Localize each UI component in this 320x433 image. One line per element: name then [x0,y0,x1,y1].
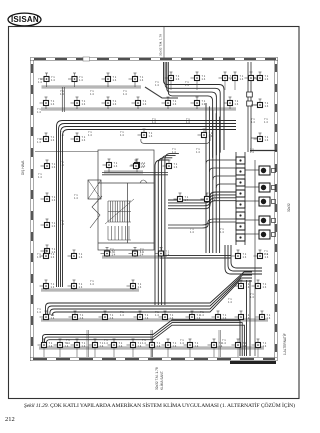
svg-text:1 4: 1 4 [82,102,86,106]
svg-text:1 4: 1 4 [51,78,55,82]
partition wall units column [254,160,256,356]
svg-text:1 4: 1 4 [149,134,153,138]
svg-text:1 4: 1 4 [209,134,213,138]
svg-text:Şekil 11.29. ÇOK KATLI YAPILAR: Şekil 11.29. ÇOK KATLI YAPILARDA AMERİKA… [24,402,295,409]
svg-text:1 4: 1 4 [141,165,145,169]
diffuser rows with branch ducts [21,72,291,390]
svg-text:1.ALTERNATİF: 1.ALTERNATİF [282,333,287,355]
svg-text:ISISAN: ISISAN [11,15,39,24]
branch lines to units [245,170,259,234]
svg-text:1 4: 1 4 [265,104,269,108]
svg-text:KLİMA SANT.: KLİMA SANT. [159,371,164,390]
fan-coil unit boxes (right column) [259,166,276,239]
svg-text:1 4: 1 4 [120,313,124,317]
svg-text:1 4: 1 4 [90,282,94,286]
svg-text:1 4: 1 4 [37,140,41,144]
svg-text:1 4: 1 4 [104,341,108,345]
svg-text:1 4: 1 4 [228,300,232,304]
duct bundle upper (to top riser) [164,62,225,150]
svg-text:1 4: 1 4 [52,198,56,202]
duct bundle long left (mid horizontal) [57,121,237,288]
svg-text:1 4: 1 4 [60,92,64,96]
svg-text:1 4: 1 4 [51,255,55,259]
svg-text:1 4: 1 4 [264,252,268,256]
svg-text:1 4: 1 4 [267,316,271,320]
svg-text:1 4: 1 4 [212,198,216,202]
svg-text:1 4: 1 4 [243,255,247,259]
svg-text:1 4: 1 4 [90,92,94,96]
duct bundle right vertical [225,245,262,274]
svg-text:1 4: 1 4 [263,285,267,289]
duct bundle central vertical [155,160,169,305]
svg-text:1 4: 1 4 [170,316,174,320]
scattered size annotations [37,77,268,345]
svg-text:1 4: 1 4 [185,198,189,202]
row3 duct segment [141,134,210,144]
svg-text:1 4: 1 4 [138,285,142,289]
svg-text:32x32: 32x32 [287,203,291,212]
svg-text:1 4: 1 4 [196,150,200,154]
svg-text:1 4: 1 4 [88,133,92,137]
diagonal duct top right of row1 [145,87,178,98]
svg-text:32x32 T.M. 1.78: 32x32 T.M. 1.78 [159,34,163,56]
svg-text:1 4: 1 4 [79,78,83,82]
svg-text:1 4: 1 4 [174,165,178,169]
svg-text:1 4: 1 4 [74,196,78,200]
svg-text:1 4: 1 4 [123,92,127,96]
svg-text:1 4: 1 4 [37,310,41,314]
svg-text:1 4: 1 4 [176,77,180,81]
svg-text:1 4: 1 4 [110,316,114,320]
svg-text:1 4: 1 4 [51,102,55,106]
svg-text:1 4: 1 4 [246,285,250,289]
svg-text:1 4: 1 4 [180,341,184,345]
svg-text:1 4: 1 4 [223,316,227,320]
svg-text:1 4: 1 4 [186,120,190,124]
svg-text:1 4: 1 4 [222,341,226,345]
svg-text:1 4: 1 4 [190,230,194,234]
corridor line left of core [35,151,98,153]
duct bundle lower-left with riser to right [43,320,241,356]
svg-text:1 4: 1 4 [114,164,118,168]
svg-text:1 4: 1 4 [51,316,55,320]
svg-text:1 4: 1 4 [120,133,124,137]
svg-text:1 4: 1 4 [152,120,156,124]
svg-text:1 4: 1 4 [113,78,117,82]
svg-text:1 4: 1 4 [110,250,114,254]
svg-text:1 4: 1 4 [265,138,269,142]
svg-text:1 4: 1 4 [172,150,176,154]
svg-text:1 4: 1 4 [143,102,147,106]
wall left [31,58,34,361]
svg-text:1 4: 1 4 [265,77,269,81]
horizontal duct pair y~172 [102,173,168,175]
svg-text:1 4: 1 4 [250,150,254,154]
svg-text:1 4: 1 4 [140,250,144,254]
svg-text:1 4: 1 4 [202,102,206,106]
wall top [30,57,278,61]
svg-text:1 4: 1 4 [66,341,70,345]
wall bottom [30,358,277,361]
svg-text:1 4: 1 4 [60,163,64,167]
svg-text:1 4: 1 4 [145,316,149,320]
stair arrow zigzag [90,196,102,228]
svg-text:1 4: 1 4 [38,80,42,84]
duct bundle bottom horizontal with diagonal [46,272,253,315]
svg-text:1 4: 1 4 [51,285,55,289]
svg-text:1 4: 1 4 [251,120,255,124]
svg-text:1 4: 1 4 [250,295,254,299]
svg-text:1 4: 1 4 [155,83,159,87]
svg-text:1 4: 1 4 [155,313,159,317]
svg-text:1 4: 1 4 [200,313,204,317]
wall right [275,58,278,361]
svg-text:1 4: 1 4 [82,344,86,348]
svg-text:1 4: 1 4 [82,138,86,142]
svg-text:1 4: 1 4 [166,252,170,256]
main riser shaft stack [236,152,245,245]
svg-text:1 4: 1 4 [80,316,84,320]
svg-text:1 4: 1 4 [240,77,244,81]
svg-text:1 4: 1 4 [235,102,239,106]
svg-text:DIŞ HAVA: DIŞ HAVA [21,160,25,175]
vertical duct pair top right with dampers [247,62,257,152]
svg-text:1 4: 1 4 [113,102,117,106]
svg-text:1 4: 1 4 [220,230,224,234]
riser line top [163,27,165,60]
shaft fan-out horizontals [206,160,236,188]
svg-text:1 4: 1 4 [185,83,189,87]
dark duct segment y~256 [160,256,231,258]
duct bundle central-right verticals [205,103,207,253]
svg-text:1 4: 1 4 [60,133,64,137]
figure frame [9,27,300,399]
svg-text:1 4: 1 4 [243,344,247,348]
svg-text:1 4: 1 4 [173,344,177,348]
svg-text:1 4: 1 4 [52,224,56,228]
svg-text:1 4: 1 4 [246,316,250,320]
svg-text:1 4: 1 4 [37,255,41,259]
svg-text:1 4: 1 4 [142,341,146,345]
svg-text:1 4: 1 4 [38,175,42,179]
svg-text:1 4: 1 4 [202,77,206,81]
left column extra diffuser [21,77,291,390]
svg-text:1 4: 1 4 [37,110,41,114]
svg-text:1 4: 1 4 [52,165,56,169]
ISISAN logo oval [8,13,41,26]
duct bundle S-link lower [168,219,236,225]
svg-text:212: 212 [5,416,15,423]
elevator shaft with X [88,180,101,199]
core room outline (stair core) [98,150,154,250]
svg-text:1 4: 1 4 [264,120,268,124]
caption [24,402,295,409]
duct elbow bottom right [247,280,251,356]
svg-text:1 4: 1 4 [195,344,199,348]
svg-text:1 4: 1 4 [119,344,123,348]
svg-text:1 4: 1 4 [157,344,161,348]
svg-text:1 4: 1 4 [51,138,55,142]
dark duct band below bottom wall right [230,361,276,364]
svg-text:32x32 T.M. 1.78: 32x32 T.M. 1.78 [155,367,159,390]
svg-text:1 4: 1 4 [60,222,64,226]
staircase steps [105,199,134,240]
svg-text:1 4: 1 4 [140,78,144,82]
svg-text:1 4: 1 4 [79,285,83,289]
svg-text:1 4: 1 4 [263,344,267,348]
bottom room partitions [87,330,221,357]
partition wall right upper [250,150,277,152]
duct bundle S-link [168,192,236,200]
svg-text:1 4: 1 4 [49,344,53,348]
svg-text:1 4: 1 4 [79,255,83,259]
vertical duct link rows 1-2 [62,87,64,112]
svg-text:1 4: 1 4 [173,102,177,106]
